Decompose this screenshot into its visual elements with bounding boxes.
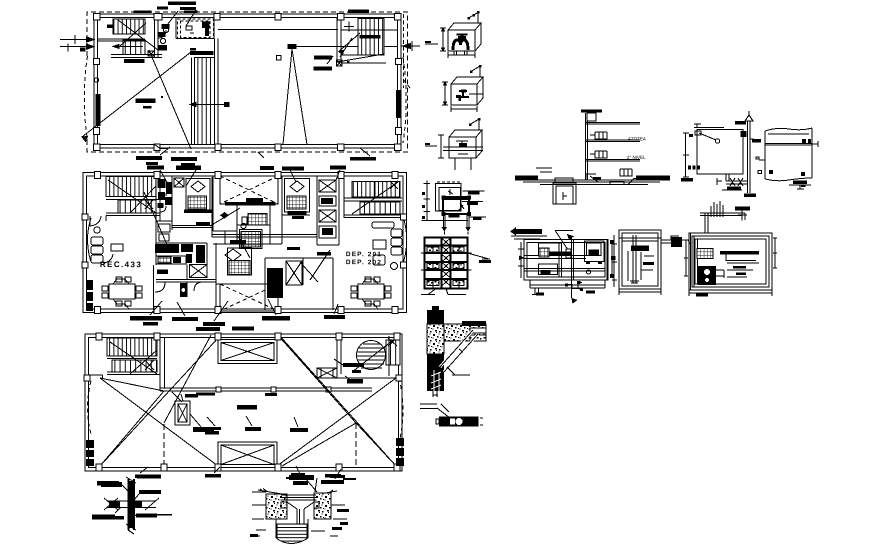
- inner square: [439, 187, 460, 210]
- center text bar: [237, 405, 257, 410]
- arrowhead left: [510, 227, 516, 236]
- inner fitting: [456, 141, 468, 154]
- arrow top: [567, 234, 574, 240]
- entry arrows left: [60, 37, 94, 49]
- diagonal pipe outlines: [440, 330, 478, 372]
- wall mid vertical: [187, 243, 216, 310]
- label right mid: [343, 363, 364, 384]
- pipe diagonal ends: [126, 477, 136, 534]
- tank top lid: [694, 128, 743, 130]
- ground line right: [314, 490, 337, 495]
- tank bar top: [581, 110, 602, 113]
- line to right stair: [292, 45, 398, 47]
- pit outline bottom: [276, 538, 308, 544]
- pipe to right: [469, 93, 483, 95]
- pipe feet darts: [442, 227, 471, 232]
- skylight top X: [221, 343, 274, 361]
- wall inner rect: [87, 176, 404, 309]
- mid band: [524, 269, 605, 272]
- label bars mid: [205, 427, 308, 435]
- hall fixture diamond: [220, 212, 229, 219]
- wall stipple inner: [427, 324, 444, 354]
- pipe vertical double: [129, 479, 135, 530]
- black bar: [439, 417, 478, 427]
- left frame marks: [518, 242, 524, 278]
- float arm: [699, 133, 716, 140]
- stair right X: [390, 181, 398, 189]
- inner rect2: [695, 239, 766, 284]
- dim left: [442, 82, 448, 105]
- left bottom squares: [687, 166, 700, 171]
- leader below: [160, 147, 264, 158]
- left dim line: [424, 180, 431, 221]
- right stair tread bar: [360, 35, 381, 39]
- label line right: [468, 253, 491, 259]
- ramp hatch: [195, 58, 215, 145]
- label bar top-right: [325, 474, 356, 480]
- horizontal pipes through: [443, 147, 483, 151]
- bottom label bar2: [801, 185, 806, 187]
- fitting right side: [741, 131, 747, 137]
- vertical wall black: [427, 310, 444, 391]
- leaders mid: [207, 416, 298, 427]
- wire dashed property boundary: [87, 12, 408, 152]
- wall inner rect: [98, 18, 398, 145]
- arm outline: [444, 324, 486, 341]
- small bar left of it: [190, 48, 196, 51]
- diagonal leader: [437, 404, 450, 418]
- spiral treads: [357, 344, 387, 368]
- black bar in box: [589, 250, 600, 256]
- top pipe elbow down: [742, 213, 745, 221]
- bed2 pillow diamond: [290, 181, 304, 192]
- label lines right: [311, 505, 347, 536]
- cistern marks: [563, 192, 567, 200]
- center bath grid fixture: [248, 213, 267, 225]
- bath fixtures top: [158, 224, 170, 241]
- bed room2 (center-right): [282, 176, 310, 244]
- pipe inner fill: [129, 481, 133, 528]
- right small bar: [752, 139, 761, 143]
- labels below plan2: [130, 315, 345, 326]
- stair landing lines: [98, 34, 163, 58]
- right stair cross: [344, 22, 354, 32]
- label bars right: [467, 192, 481, 221]
- label left-lower: [92, 515, 124, 520]
- columns top wall: [93, 14, 401, 21]
- legs below: [455, 158, 471, 170]
- diagonal sight line B: [149, 50, 191, 149]
- tank body: [765, 128, 812, 179]
- right stair enclosure: [337, 18, 386, 64]
- labels below right: [350, 157, 376, 161]
- leaders above: [160, 170, 340, 186]
- pier left stipple: [266, 494, 287, 519]
- label lines right: [462, 191, 486, 217]
- bottom label line: [789, 185, 811, 189]
- labels below plan: [136, 156, 197, 167]
- horizontal pipe element: [107, 501, 156, 508]
- water line: [765, 144, 812, 146]
- horizontal bar right: [720, 251, 759, 255]
- outer rect: [689, 233, 772, 290]
- stair top-left treads: [113, 19, 145, 34]
- riser pipes up: [705, 213, 708, 233]
- stair landing label: [124, 59, 145, 63]
- T symbol bar: [735, 207, 750, 211]
- right stair hatch x: [337, 60, 343, 66]
- center dash verticals: [164, 423, 356, 466]
- pump pipes: [716, 270, 724, 278]
- corridor line top: [218, 29, 338, 31]
- wc wall column: [155, 14, 159, 58]
- hatch block: [697, 249, 713, 259]
- chimney labels: [185, 393, 215, 433]
- right stair lower diagonal: [337, 54, 384, 62]
- dashed vertical right interior: [404, 14, 411, 89]
- closet top X: [174, 178, 184, 187]
- right wall black bar: [396, 90, 401, 118]
- stair lower flight: [112, 360, 157, 372]
- pillow1 diamond: [191, 181, 205, 192]
- funnel: [287, 502, 314, 531]
- lower-left compartment: [539, 264, 558, 275]
- stair lower flight treads: [123, 40, 145, 55]
- tv cabinet right: [373, 240, 386, 249]
- vertical pipes: [628, 235, 636, 283]
- stair X mark: [145, 200, 153, 209]
- kitchen counter lines: [156, 247, 186, 264]
- sofa left column: [91, 237, 103, 245]
- pier inner steps: [281, 502, 319, 508]
- cistern below ground: [553, 183, 576, 204]
- label lines left: [251, 492, 266, 536]
- right fixture black: [671, 237, 682, 247]
- stair lower flight: [118, 200, 156, 213]
- bottom wavy: [765, 178, 812, 181]
- big diagonals right: [164, 335, 396, 466]
- outer rect: [524, 240, 608, 281]
- tank rect: [697, 130, 743, 175]
- corridor walls bottom-left: [216, 244, 220, 284]
- stair lines: [106, 197, 160, 216]
- heater black blob: [180, 283, 186, 297]
- fixture azotea: [590, 132, 607, 139]
- leader lines interior: [144, 192, 330, 282]
- stipple cells: [427, 247, 439, 252]
- bath dense blobs top-left: [158, 179, 173, 208]
- skylight top rect: [218, 340, 277, 364]
- right stair diagonal arrow: [339, 33, 360, 54]
- frame bottom extension: [530, 280, 605, 288]
- ramp arrow: [190, 102, 224, 106]
- bath arcs: [160, 188, 172, 212]
- fixture ground: [620, 169, 632, 176]
- leaders right: [334, 359, 352, 381]
- vent tip line: [748, 111, 750, 115]
- svg-text:2° NIVEL: 2° NIVEL: [627, 155, 646, 160]
- pit semicircle: [276, 538, 308, 544]
- columns bottom plan bottom wall: [96, 464, 400, 471]
- pipe bar tail: [566, 249, 571, 258]
- right out tick: [411, 41, 413, 51]
- leader top: [305, 478, 317, 492]
- bar underline: [511, 236, 547, 239]
- side line left: [425, 43, 438, 45]
- labels above plan2: [147, 166, 346, 171]
- columns mid bottom wall: [95, 307, 399, 314]
- bottom center bedroom walls: [212, 177, 333, 310]
- bottom dim: [689, 290, 772, 296]
- label left small bars: [250, 534, 258, 537]
- spiral stair circle: [357, 341, 386, 370]
- left wall circle: [94, 78, 98, 82]
- bed1 frame: [186, 179, 210, 213]
- stair diagonal: [118, 20, 158, 50]
- label right-lower: [136, 514, 172, 518]
- plant blobs right wall: [399, 436, 401, 438]
- horizontal arm stipple: [444, 324, 486, 341]
- white circle in bar: [455, 418, 463, 426]
- wall below stair corner: [89, 375, 103, 378]
- inner top-right box2: [587, 243, 602, 256]
- stair rail bar: [107, 25, 113, 29]
- box top face: [449, 130, 482, 158]
- label top: [137, 475, 161, 479]
- bottom outlet pipe: [726, 174, 748, 184]
- inner black bar: [449, 215, 460, 218]
- leader left labels: [536, 168, 552, 172]
- top inner line: [768, 133, 809, 135]
- box front face: [449, 137, 476, 158]
- pump body black: [698, 266, 716, 285]
- bottom stub: [433, 391, 438, 397]
- pipe bottom foot: [630, 281, 639, 283]
- column top sq: [154, 14, 162, 21]
- label bar left kitchen: [157, 270, 168, 274]
- top pipe horizontal: [700, 213, 745, 216]
- dim left bar: [681, 178, 693, 182]
- interior lines right: [727, 263, 759, 277]
- boundary curve right: [403, 57, 406, 143]
- wall outer rect: [85, 334, 402, 471]
- kitchen counter dense: [155, 244, 205, 263]
- shaft skylight dashed X top: [220, 176, 278, 204]
- stair lines: [107, 356, 160, 375]
- small circle: [587, 270, 591, 274]
- svg-text:AZOTEA: AZOTEA: [628, 136, 646, 141]
- closet X mid-left: [190, 264, 207, 277]
- columns right wall mid: [396, 59, 402, 65]
- ground bar right: [636, 176, 670, 180]
- bed2 frame: [285, 179, 310, 213]
- plant circle: [94, 227, 100, 233]
- ground step detail: [555, 178, 646, 185]
- inner rect: [527, 243, 605, 278]
- dim left: [683, 133, 689, 177]
- pipe hatch marks: [431, 372, 441, 389]
- vent triangle: [745, 115, 753, 121]
- dining table right: [358, 284, 384, 299]
- side line left: [425, 145, 437, 147]
- drop pipes: [443, 214, 468, 229]
- left black squares: [422, 192, 425, 219]
- bath fixtures bottom-center: [267, 268, 283, 298]
- white square in bar: [450, 419, 455, 425]
- label bars right-mid: [314, 56, 332, 71]
- center bath fixtures: [242, 217, 247, 224]
- pipe bottom elbow: [586, 174, 598, 182]
- pipe vertical main: [572, 236, 574, 299]
- pit walls: [276, 519, 308, 538]
- outer square: [436, 183, 461, 211]
- label line: [447, 367, 470, 375]
- small black tick: [593, 177, 601, 180]
- bath dashed outer: [177, 19, 213, 38]
- top double lines: [619, 238, 661, 241]
- bath walls: [176, 18, 214, 39]
- plant blobs right wall p3: [396, 438, 404, 466]
- chairs right dining: [351, 286, 357, 291]
- interior horizontal wall: [160, 388, 372, 391]
- hatch square: [539, 248, 549, 257]
- big diagonals left: [100, 337, 219, 466]
- label blob top: [286, 473, 306, 480]
- underline below: [722, 189, 742, 191]
- center-bottom bed frame: [228, 248, 252, 275]
- blob: [459, 143, 467, 147]
- box feet: [586, 262, 602, 265]
- leader lines right stair: [327, 38, 352, 64]
- sofa arc: [103, 254, 113, 263]
- ground bar left: [515, 176, 538, 180]
- pipe square top bar: [444, 197, 468, 201]
- bath dashed inner: [181, 21, 211, 38]
- ground line left: [258, 489, 282, 495]
- wall outer rect: [83, 173, 407, 313]
- columns side walls plan3: [84, 375, 90, 381]
- top-left bath walls: [156, 176, 172, 244]
- interior vertical wall: [160, 338, 165, 392]
- center-bottom bed pillow: [225, 249, 241, 261]
- wall below stairs: [106, 176, 172, 221]
- hatch box left of stair: [317, 368, 337, 378]
- stair diagonal: [108, 180, 156, 213]
- tub frame: [240, 230, 263, 249]
- black bar lower-left: [541, 270, 551, 274]
- closet X bottom: [286, 261, 302, 285]
- columns bottom plan top wall: [96, 333, 400, 340]
- faucet symbol: [457, 91, 469, 97]
- center bath walls: [237, 204, 270, 244]
- nivel2 slab: [586, 160, 640, 162]
- inner bar: [643, 262, 654, 265]
- leader above: [164, 10, 196, 29]
- stair right second flight: [360, 202, 400, 214]
- chimney detail: [175, 401, 190, 425]
- main riser pipe: [586, 113, 588, 180]
- left tick: [756, 157, 765, 160]
- columns bottom wall: [93, 144, 401, 151]
- text bars above plan: [133, 2, 197, 14]
- riser line up: [469, 12, 478, 23]
- lower pipe outline: [434, 370, 439, 391]
- wall inner rect: [89, 338, 399, 468]
- label right-upper: [139, 490, 161, 494]
- small square door mark: [277, 56, 282, 61]
- cell dividers: [433, 246, 459, 289]
- elbow mark: [459, 203, 464, 210]
- armchair right: [373, 255, 385, 265]
- right edge ticks: [773, 238, 777, 268]
- bottom bar: [696, 294, 708, 297]
- right stair X: [388, 338, 397, 346]
- outer rect: [619, 230, 661, 289]
- dim bottom: [448, 52, 475, 58]
- ramp arrow box: [224, 102, 230, 107]
- top-left bar: [689, 134, 693, 137]
- center channel: [442, 238, 451, 289]
- bath small marks: [186, 26, 194, 33]
- tank box: [587, 113, 596, 121]
- skylight bottom rect: [218, 442, 277, 468]
- box top face: [448, 23, 481, 51]
- columns left wall mid: [93, 59, 99, 65]
- left small marks: [684, 240, 688, 276]
- bottom dim: [619, 289, 661, 295]
- right tick: [812, 141, 818, 147]
- crossing diagonals: [104, 498, 159, 510]
- dim left: [438, 135, 444, 158]
- black bar above ramp: [190, 51, 213, 55]
- fitting tick: [750, 138, 754, 140]
- riser dots2: [470, 65, 482, 73]
- bed1 mattress grid: [188, 196, 207, 209]
- box front face: [448, 30, 475, 51]
- stepped pipe bottom: [566, 283, 582, 291]
- boundary curve left: [88, 218, 92, 262]
- channel zigzag: [442, 238, 451, 286]
- partition horizontal: [524, 256, 586, 259]
- interior text bars left room: [136, 99, 156, 109]
- left wall black bar: [96, 94, 101, 126]
- top stub: [432, 306, 439, 310]
- bottom-left L marks: [532, 288, 540, 295]
- leaders below: [150, 299, 338, 321]
- labels below plan3: [97, 474, 345, 486]
- roof slab line: [586, 123, 640, 125]
- thick pipe square: [443, 197, 469, 214]
- entry arrow blob: [80, 48, 86, 52]
- kitchen blobs2: [173, 254, 192, 263]
- bottom label bar: [793, 181, 807, 185]
- arm right blocks: [470, 328, 486, 333]
- labels interior small: [196, 198, 331, 256]
- columns mid top wall: [95, 172, 399, 179]
- plant blobs left wall p3: [86, 440, 94, 466]
- inner rect: [692, 236, 769, 287]
- inner rect: [622, 233, 658, 286]
- bottom label lines: [421, 289, 466, 295]
- boundary curve right: [404, 218, 407, 262]
- dining table left: [109, 284, 135, 299]
- diagonal sight line A: [82, 52, 191, 141]
- valve legs: [454, 51, 467, 55]
- right post caps: [610, 240, 616, 278]
- pump circles: [704, 269, 711, 276]
- stair right diagonal: [352, 182, 398, 215]
- box front face: [451, 84, 477, 105]
